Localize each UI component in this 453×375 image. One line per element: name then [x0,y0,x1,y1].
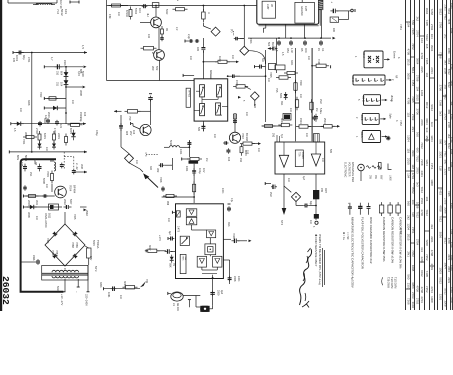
svg-text:LMP: LMP [266,4,270,10]
svg-text:2706: 2706 [420,119,424,126]
svg-text:1500: 1500 [235,80,239,86]
svg-text:2k2: 2k2 [443,34,447,39]
svg-text:2708: 2708 [450,64,453,70]
svg-text:2015: 2015 [420,66,424,73]
svg-text:104: 104 [415,86,419,91]
svg-text:5010: 5010 [56,286,59,292]
svg-text:104: 104 [19,108,22,113]
svg-text:3n3: 3n3 [430,122,434,127]
svg-text:2201: 2201 [439,294,443,301]
svg-text:302: 302 [156,168,160,173]
svg-text:7×2: 7×2 [56,9,60,14]
svg-text:UKW: UKW [389,175,392,181]
svg-text:3056: 3056 [411,282,415,289]
svg-text:302: 302 [149,166,152,171]
svg-text:104: 104 [119,295,122,300]
svg-text:560: 560 [415,132,419,137]
svg-text:MW: MW [380,175,383,180]
svg-text:7452: 7452 [425,254,429,261]
svg-text:104: 104 [305,133,308,138]
svg-text:MINIATURE ELECTROLYTIC CAPACIT: MINIATURE ELECTROLYTIC CAPACITOR 4μ7/25V [350,217,354,289]
svg-text:Uhrwk: Uhrwk [390,95,393,103]
svg-text:2708: 2708 [415,75,419,82]
svg-text:OSZILLATOR: OSZILLATOR [44,213,47,228]
svg-text:2703: 2703 [443,114,447,121]
svg-text:2015: 2015 [407,59,411,66]
svg-text:20V: 20V [129,131,132,136]
svg-text:102 30: 102 30 [59,0,63,9]
svg-text:7069: 7069 [75,242,79,248]
svg-text:1503: 1503 [439,267,443,274]
svg-text:47μ: 47μ [230,198,233,203]
svg-text:87103: 87103 [125,10,128,17]
svg-text:T1/2 DWM: T1/2 DWM [390,277,393,288]
svg-text:7268: 7268 [439,100,443,107]
svg-text:4H: 4H [146,13,150,17]
svg-text:4708: 4708 [407,98,411,105]
svg-text:100μ: 100μ [198,168,201,174]
svg-text:3N8: 3N8 [80,164,84,169]
svg-text:3n3: 3n3 [420,247,424,252]
svg-text:BF494: BF494 [73,185,77,194]
svg-text:7006: 7006 [232,233,235,239]
svg-text:1204: 1204 [430,135,434,142]
svg-text:1M: 1M [205,158,208,161]
svg-text:3904: 3904 [411,150,415,157]
svg-text:3008: 3008 [79,90,83,96]
svg-text:4708: 4708 [439,205,443,212]
svg-text:3056: 3056 [450,28,453,34]
svg-text:3n3: 3n3 [443,60,447,65]
svg-text:5008: 5008 [81,71,84,77]
svg-text:1503: 1503 [425,135,429,142]
svg-text:7001: 7001 [22,139,25,145]
svg-text:1204: 1204 [407,135,411,142]
svg-text:7N5: 7N5 [275,88,278,93]
svg-text:7012: 7012 [415,155,419,162]
svg-text:M51: M51 [286,48,289,53]
svg-text:IMPEDANCE 2MΩ: IMPEDANCE 2MΩ [351,162,354,182]
svg-text:2704: 2704 [420,53,424,60]
svg-text:7067: 7067 [55,250,59,256]
svg-text:7452: 7452 [443,93,447,100]
svg-text:100n: 100n [237,276,240,282]
svg-text:3n3: 3n3 [439,111,443,116]
svg-text:560: 560 [407,274,411,279]
svg-text:4708: 4708 [430,250,434,257]
svg-text:7451: 7451 [399,24,403,30]
svg-text:3904: 3904 [415,58,419,65]
svg-text:3904: 3904 [425,8,429,15]
svg-text:3056: 3056 [439,232,443,239]
svg-text:2301: 2301 [447,277,451,283]
svg-text:7405: 7405 [411,96,415,103]
svg-text:2704: 2704 [411,173,415,180]
svg-text:9012: 9012 [430,105,434,112]
svg-text:2703: 2703 [450,287,453,293]
svg-text:4Ω 1W: 4Ω 1W [176,303,179,311]
svg-text:+: + [331,0,333,4]
svg-text:104: 104 [411,200,415,205]
svg-text:T2B DWM: T2B DWM [387,277,390,288]
svg-text:118: 118 [425,44,429,49]
svg-text:3056: 3056 [443,207,447,214]
svg-text:7452: 7452 [443,14,447,21]
svg-text:2201: 2201 [439,151,443,158]
svg-text:2704: 2704 [415,30,419,37]
svg-text:7452: 7452 [439,189,443,196]
svg-text:1503: 1503 [450,265,453,271]
svg-text:7009: 7009 [299,80,302,86]
svg-text:1,02: 1,02 [290,48,293,53]
svg-text:2008: 2008 [233,276,236,282]
svg-text:M9T: M9T [324,188,327,193]
svg-text:3,15: 3,15 [77,71,80,76]
svg-text:VOLTMETER: VOLTMETER [347,162,350,177]
svg-text:105: 105 [12,58,15,63]
svg-text:104: 104 [231,55,234,60]
svg-text:7405: 7405 [447,18,451,24]
svg-text:56-B: 56-B [351,77,355,83]
svg-text:CARBON RESISTOR 0-5W ±5%: CARBON RESISTOR 0-5W ±5% [382,217,386,262]
svg-text:B5X: B5X [168,263,171,268]
svg-text:2708: 2708 [450,242,453,248]
svg-text:X705: X705 [412,183,416,190]
svg-text:5012: 5012 [411,67,415,74]
svg-text:2706: 2706 [439,22,443,29]
svg-text:Extern: Extern [393,51,396,59]
svg-text:2N4: 2N4 [29,172,32,177]
svg-text:504: 504 [261,58,264,63]
svg-text:56-A: 56-A [362,53,366,59]
svg-text:2M2: 2M2 [319,99,322,104]
svg-text:104: 104 [83,112,86,117]
svg-text:104: 104 [407,173,411,178]
svg-text:1204: 1204 [420,90,424,97]
svg-text:118: 118 [439,166,443,171]
svg-text:7405: 7405 [425,58,429,65]
svg-text:53-B: 53-B [360,115,364,121]
svg-text:7452: 7452 [425,286,429,293]
svg-text:104: 104 [267,78,270,83]
svg-text:100n: 100n [221,188,224,194]
svg-text:1204: 1204 [407,223,411,230]
svg-text:104: 104 [321,158,324,163]
svg-text:MF455: MF455 [188,90,190,98]
svg-text:9012: 9012 [420,270,424,277]
svg-text:706: 706 [145,279,148,284]
svg-text:6M: 6M [271,42,274,45]
svg-text:1001: 1001 [185,166,188,172]
svg-text:2703: 2703 [430,264,434,271]
svg-text:3N3: 3N3 [35,200,39,205]
svg-text:10V: 10V [202,168,205,173]
svg-text:Spkr: Spkr [389,113,392,118]
svg-text:104: 104 [309,220,312,225]
svg-text:5702: 5702 [134,8,138,15]
svg-text:2N1: 2N1 [407,251,411,257]
svg-text:82p: 82p [22,55,26,60]
svg-text:180: 180 [332,28,335,33]
svg-text:104: 104 [117,12,120,17]
svg-text:2706: 2706 [420,210,424,217]
svg-text:2704: 2704 [399,228,403,234]
svg-text:3,4TB: 3,4TB [177,226,179,233]
svg-text:2704: 2704 [415,239,419,246]
svg-text:2701: 2701 [27,57,30,63]
svg-text:7066: 7066 [51,250,55,256]
svg-text:2702: 2702 [450,297,453,303]
svg-text:2702: 2702 [411,114,415,121]
svg-text:2k2: 2k2 [447,167,451,172]
svg-text:104: 104 [60,82,63,87]
svg-text:105: 105 [20,162,24,167]
svg-text:2009: 2009 [217,290,220,296]
svg-text:153: 153 [239,158,242,163]
svg-text:5012: 5012 [443,238,447,245]
svg-text:7303: 7303 [249,38,252,44]
svg-text:2N1: 2N1 [411,127,415,133]
svg-text:5011: 5011 [48,213,51,219]
svg-text:104: 104 [443,140,447,145]
svg-text:2703: 2703 [415,167,419,174]
svg-text:9012: 9012 [450,149,453,155]
svg-text:2706: 2706 [450,137,453,143]
svg-text:3053: 3053 [99,282,102,288]
svg-text:5007: 5007 [69,199,72,205]
svg-text:2201: 2201 [57,133,61,139]
svg-text:311: 311 [56,82,59,87]
svg-text:4μ7: 4μ7 [302,176,305,181]
svg-text:1503: 1503 [450,3,453,9]
svg-text:3n3: 3n3 [443,84,447,89]
svg-text:7451: 7451 [430,163,434,170]
svg-text:4708: 4708 [407,48,411,55]
svg-text:7012: 7012 [420,142,424,149]
svg-text:2301: 2301 [450,162,453,168]
svg-text:3004: 3004 [290,60,293,66]
svg-text:7×08: 7×08 [317,59,320,65]
svg-text:104: 104 [35,216,38,221]
svg-text:✱ FOR SERVICE ONLY: ✱ FOR SERVICE ONLY [314,234,318,266]
svg-text:103: 103 [138,8,142,13]
svg-text:2708: 2708 [447,122,451,128]
svg-text:2992: 2992 [85,210,89,216]
svg-text:7066: 7066 [46,238,49,244]
svg-text:ITEMS TO BE ADDED DPL,STR ∠ωɣ: ITEMS TO BE ADDED DPL,STR ∠ωɣ [318,234,322,285]
svg-text:505: 505 [197,127,200,132]
svg-text:7268: 7268 [407,298,411,305]
svg-text:5012: 5012 [439,9,443,16]
svg-text:2702: 2702 [35,128,39,134]
svg-text:2k2: 2k2 [407,215,411,220]
svg-text:310: 310 [56,71,59,76]
svg-text:4μ7: 4μ7 [168,231,171,236]
svg-text:T451: T451 [450,229,453,235]
svg-text:104: 104 [167,218,170,223]
svg-text:104: 104 [132,130,135,135]
svg-text:118: 118 [411,212,415,217]
svg-text:7452: 7452 [411,250,415,257]
svg-text:104: 104 [299,94,302,99]
svg-text:104: 104 [425,197,429,202]
svg-text:405μ: 405μ [95,130,98,136]
svg-text:7268: 7268 [439,52,443,59]
svg-text:118: 118 [450,101,453,105]
svg-text:5012: 5012 [447,69,451,75]
svg-text:502: 502 [253,104,256,109]
svg-text:683: 683 [209,70,212,75]
svg-text:+17V: +17V [158,235,161,241]
svg-text:220−240V: 220−240V [85,294,89,306]
svg-text:7405: 7405 [182,256,184,262]
svg-text:604: 604 [60,71,63,76]
svg-text:6001: 6001 [69,128,73,134]
svg-text:104: 104 [407,22,411,27]
svg-text:7451: 7451 [411,227,415,234]
svg-text:2k2: 2k2 [415,17,419,22]
svg-text:118: 118 [407,148,411,153]
svg-text:1503: 1503 [450,80,453,86]
svg-text:1103: 1103 [218,56,222,62]
svg-text:3n3: 3n3 [415,182,419,187]
svg-text:2301: 2301 [443,4,447,11]
svg-text:✱ = 4+: ✱ = 4+ [342,232,346,240]
svg-text:2703: 2703 [450,114,453,120]
svg-text:2015: 2015 [407,158,411,165]
svg-text:118: 118 [411,164,415,169]
svg-text:2702: 2702 [415,298,419,305]
svg-text:3904: 3904 [443,263,447,270]
svg-text:2M2: 2M2 [269,192,272,197]
svg-text:3001: 3001 [24,132,28,138]
svg-text:1008: 1008 [430,179,434,186]
svg-text:104: 104 [257,148,260,153]
svg-text:502: 502 [155,66,159,71]
svg-text:1204: 1204 [425,159,429,166]
svg-text:GRUND: GRUND [300,6,304,16]
svg-text:505: 505 [329,149,332,154]
svg-text:FM: FM [108,14,112,19]
svg-text:2,2p: 2,2p [187,34,190,39]
svg-text:3904: 3904 [430,45,434,52]
svg-text:7002: 7002 [39,92,42,98]
svg-text:560: 560 [407,201,411,206]
svg-text:104: 104 [45,147,48,152]
svg-text:3007: 3007 [148,245,151,251]
svg-text:3008: 3008 [27,100,30,106]
svg-text:560: 560 [443,160,447,165]
svg-text:104: 104 [420,38,424,43]
svg-text:LS: LS [172,303,175,306]
svg-text:1503: 1503 [450,203,453,209]
svg-text:17V: 17V [89,256,92,261]
svg-text:DISC CERAMIC CAPACITOR 2n2: DISC CERAMIC CAPACITOR 2n2 [369,217,373,264]
svg-text:✺: ✺ [386,135,392,143]
svg-text:104: 104 [189,56,192,61]
svg-text:7452: 7452 [411,80,415,87]
svg-text:118: 118 [407,112,411,117]
svg-text:750: 750 [128,116,132,121]
svg-text:455: 455 [320,188,323,193]
svg-text:2N2: 2N2 [272,133,274,138]
svg-text:1503: 1503 [420,198,424,205]
svg-text:1046D: 1046D [301,152,303,159]
svg-text:7012: 7012 [439,216,443,223]
svg-text:560: 560 [439,139,443,144]
svg-text:1702: 1702 [53,128,57,134]
svg-text:7405: 7405 [447,191,451,197]
svg-text:560: 560 [411,20,415,25]
svg-text:3056: 3056 [407,73,411,80]
svg-text:3904: 3904 [425,118,429,125]
svg-text:4708: 4708 [415,285,419,292]
svg-text:2066: 2066 [32,255,35,261]
svg-text:104: 104 [135,160,138,165]
svg-text:FLAT-FOIL POLYESTER CAPACITOR: FLAT-FOIL POLYESTER CAPACITOR [361,217,365,270]
svg-text:260: 260 [151,66,155,71]
svg-text:7405: 7405 [411,28,415,35]
svg-text:104: 104 [425,72,429,77]
svg-text:TCA: TCA [184,256,187,261]
svg-text:5004: 5004 [33,159,36,165]
svg-text:3004: 3004 [280,118,283,124]
svg-text:1008: 1008 [430,296,434,303]
svg-text:5012: 5012 [439,277,443,284]
svg-text:7452: 7452 [399,120,403,126]
svg-text:180: 180 [196,47,199,52]
svg-text:7268: 7268 [420,159,424,166]
svg-text:26032: 26032 [0,276,11,305]
svg-text:104: 104 [430,34,434,39]
svg-text:7012: 7012 [420,187,424,194]
svg-text:2703: 2703 [420,296,424,303]
svg-text:3n3: 3n3 [425,127,429,132]
svg-text:2301: 2301 [420,170,424,177]
svg-text:4708: 4708 [420,287,424,294]
svg-text:3N3: 3N3 [227,222,230,227]
svg-text:7003: 7003 [46,171,50,177]
svg-text:3002: 3002 [43,118,46,124]
svg-text:TDA: TDA [298,152,301,157]
svg-text:3N4: 3N4 [280,101,283,106]
svg-text:104: 104 [307,56,310,61]
svg-text:2015: 2015 [407,234,411,241]
svg-text:56-E: 56-E [361,96,365,102]
svg-text:2μ2: 2μ2 [220,290,223,295]
svg-text:2702: 2702 [430,24,434,31]
svg-text:2301: 2301 [450,255,453,261]
svg-text:1008: 1008 [411,265,415,272]
svg-text:60p: 60p [309,201,312,206]
svg-text:504: 504 [267,42,270,47]
svg-text:2201: 2201 [430,236,434,243]
svg-text:7452: 7452 [443,150,447,157]
svg-text:7004: 7004 [69,185,73,192]
svg-text:2706: 2706 [439,85,443,92]
svg-text:2704: 2704 [430,286,434,293]
svg-text:5011: 5011 [169,140,172,146]
svg-text:683: 683 [415,148,419,153]
svg-text:BC148: BC148 [245,133,249,141]
svg-text:ELECTRONIC: ELECTRONIC [344,162,347,178]
svg-text:5001: 5001 [279,93,282,99]
svg-text:5012: 5012 [60,9,64,16]
svg-text:104: 104 [71,100,74,105]
svg-text:7012: 7012 [415,211,419,218]
svg-text:3054: 3054 [123,281,126,287]
svg-text:121: 121 [59,124,62,129]
